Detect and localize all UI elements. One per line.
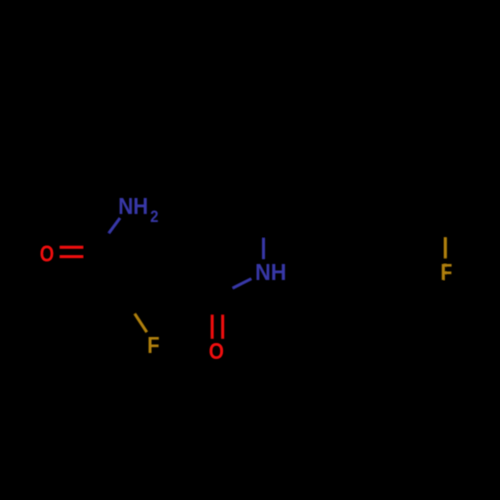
wire bond N2-C4 carbon half (black vertical): [262, 217, 265, 238]
wire double bond C1=O1 oxygen half (red, two bars): [60, 246, 83, 249]
wire bond C1-C2 (carbon skeleton, black): [103, 247, 119, 290]
wire double bond C3=O2 carbon half (black, two bars): [211, 296, 214, 315]
wire bond Cring-F2 fluorine half (gold vertical): [444, 237, 447, 258]
wire double bond C1=O1 carbon half (black, two bars): [83, 246, 104, 249]
svg-text:2: 2: [150, 207, 158, 226]
wire bond C2-F1 fluorine half (gold): [135, 314, 147, 332]
wire bond C3-N2 carbon half (black diagonal): [218, 288, 233, 295]
svg-text:F: F: [147, 332, 159, 358]
wire bond C1-N1 nitrogen half (blue): [109, 218, 120, 233]
svg-text:NH: NH: [255, 259, 286, 285]
wire bond C4-C5 benzylic to ring (black): [264, 217, 348, 233]
svg-text:O: O: [40, 241, 54, 267]
wire bond C3-N2 nitrogen half (blue diagonal): [233, 279, 252, 288]
wire bond C2-C2a (carbon skeleton, black): [119, 266, 168, 290]
benzene ring carbons (black, invisible on background): [347, 205, 445, 318]
svg-text:O: O: [209, 338, 224, 364]
wire bond C2-F1 carbon half (black): [119, 290, 135, 314]
svg-text:NH: NH: [118, 193, 148, 219]
wire bond Cring-F2 carbon half (black vertical): [444, 228, 447, 237]
wire double bond C3=O2 oxygen half (red, two bars): [211, 315, 214, 339]
svg-text:F: F: [441, 259, 453, 285]
wire bond C2a-C3 (carbon skeleton, black): [168, 266, 218, 296]
wire bond C1-N1 carbon half (black): [103, 233, 109, 247]
wire bond N2-C4 nitrogen half (blue vertical): [262, 238, 265, 259]
